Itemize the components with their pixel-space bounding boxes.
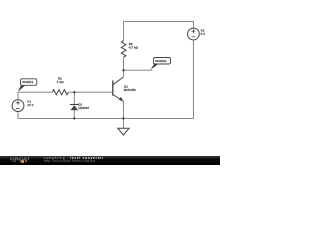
svg-text:5 V: 5 V — [201, 32, 207, 36]
svg-text:12 V: 12 V — [27, 103, 34, 107]
svg-text:4.7 kΩ: 4.7 kΩ — [129, 45, 139, 49]
svg-text:1 kΩ: 1 kΩ — [57, 80, 64, 84]
svg-text:NODE1: NODE1 — [22, 80, 33, 84]
svg-text:1N4007: 1N4007 — [78, 106, 89, 110]
svg-text:NODE2: NODE2 — [155, 59, 166, 63]
svg-text:BC547B: BC547B — [124, 88, 137, 92]
